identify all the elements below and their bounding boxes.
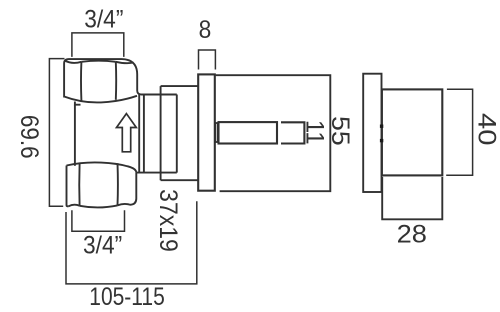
svg-text:8: 8 (199, 16, 212, 44)
svg-text:3/4”: 3/4” (83, 232, 122, 260)
svg-text:40: 40 (473, 113, 500, 146)
svg-text:11: 11 (300, 120, 328, 145)
svg-text:3/4”: 3/4” (84, 5, 123, 33)
svg-text:55: 55 (326, 116, 353, 146)
svg-text:105-115: 105-115 (89, 282, 164, 310)
svg-text:69.6: 69.6 (15, 115, 43, 159)
svg-text:37x19: 37x19 (154, 189, 182, 252)
svg-text:28: 28 (397, 220, 427, 249)
